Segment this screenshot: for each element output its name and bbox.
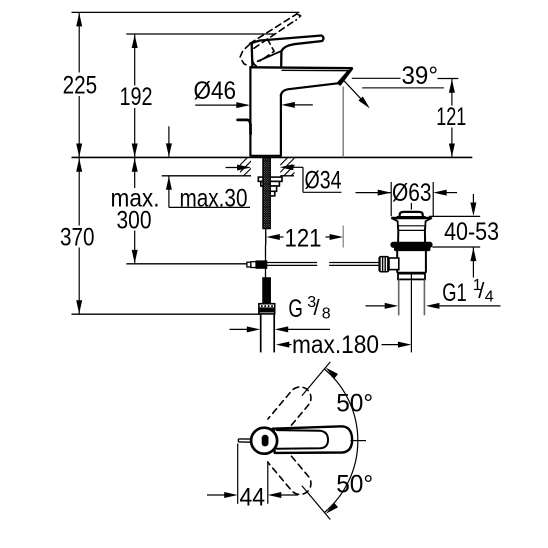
svg-text:44: 44 (240, 484, 266, 512)
svg-text:40-53: 40-53 (444, 218, 499, 246)
svg-text:max.180: max.180 (292, 331, 379, 359)
svg-text:Ø34: Ø34 (305, 167, 342, 195)
svg-text:50°: 50° (336, 390, 373, 418)
svg-text:121: 121 (285, 225, 322, 253)
svg-text:4: 4 (485, 288, 494, 305)
svg-text:G: G (288, 295, 303, 323)
svg-text:G1: G1 (442, 279, 467, 307)
svg-text:300: 300 (117, 206, 152, 234)
svg-text:225: 225 (63, 71, 98, 99)
svg-text:192: 192 (120, 83, 153, 111)
svg-text:/: / (314, 295, 321, 320)
svg-text:121: 121 (436, 103, 466, 131)
svg-text:max.30: max.30 (180, 184, 248, 212)
svg-text:Ø46: Ø46 (194, 77, 237, 105)
svg-text:50°: 50° (336, 471, 373, 499)
svg-text:8: 8 (322, 305, 331, 322)
svg-text:39°: 39° (402, 62, 439, 90)
svg-text:370: 370 (60, 223, 95, 251)
